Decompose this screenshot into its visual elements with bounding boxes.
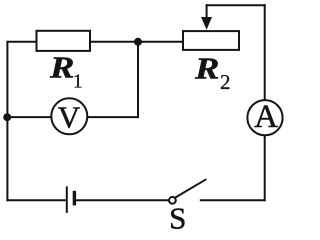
wire: right vertical lower (ammeter to bottom) [264, 136, 266, 202]
wire: voltmeter left lead [7, 116, 51, 118]
wire: left vertical rail [6, 41, 8, 202]
wire: right vertical upper (to ammeter) [264, 4, 266, 100]
resistor R2 (rheostat body) [183, 31, 239, 50]
label R1 [49, 51, 83, 93]
node: junction dot on top wire [134, 38, 142, 46]
voltmeter V [51, 98, 87, 134]
wire: bottom-right horizontal (corner to switch) [200, 199, 266, 201]
svg-text:S: S [169, 200, 186, 230]
battery cell [67, 186, 75, 213]
rheostat slider arrow [201, 4, 212, 30]
resistor R1 [37, 31, 91, 51]
wire: bottom-middle horizontal (battery to switch) [75, 199, 169, 201]
svg-text:A: A [254, 99, 278, 135]
node: junction dot on left rail [3, 113, 11, 121]
svg-text:1: 1 [73, 71, 83, 93]
label R2 [194, 52, 231, 94]
wire: voltmeter branch vertical [137, 42, 139, 117]
wire: R1 to R2 horizontal [90, 41, 184, 43]
wire: slider to top-right horizontal [206, 4, 266, 6]
ammeter A [247, 99, 282, 135]
wire: voltmeter right lead [87, 116, 139, 118]
wire: bottom-left horizontal (corner to battery) [6, 199, 65, 201]
svg-text:R: R [194, 52, 219, 86]
svg-text:R: R [49, 51, 74, 85]
svg-text:V: V [58, 100, 81, 135]
switch S [169, 179, 206, 204]
wire: top-left horizontal from left rail to R1 [7, 41, 38, 43]
svg-text:2: 2 [220, 70, 231, 94]
